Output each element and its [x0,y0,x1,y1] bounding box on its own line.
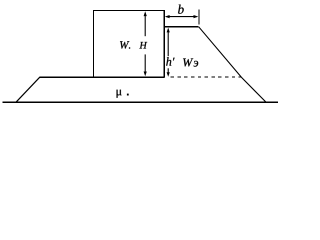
dimension line H (vertical, double arrow) [144,11,147,76]
b extension tick [198,9,200,24]
left slope wire [16,77,40,102]
ground line [3,101,279,103]
label dot after mu [127,94,129,96]
label b [178,5,184,14]
berm top line [39,76,164,78]
backfill crest wire [164,26,198,28]
label h' [166,57,174,65]
dimension line h' (vertical, double arrow) [167,28,170,77]
label W. [120,41,130,48]
right slope wire [199,27,266,103]
wall rectangle [94,11,165,78]
dashed backfill base line [171,76,241,78]
label W3 (W with Cyrillic э) [183,58,193,66]
dimension line b (horizontal, double arrow) [165,15,199,18]
label H [139,42,147,49]
label mu (friction coefficient) [117,90,122,98]
